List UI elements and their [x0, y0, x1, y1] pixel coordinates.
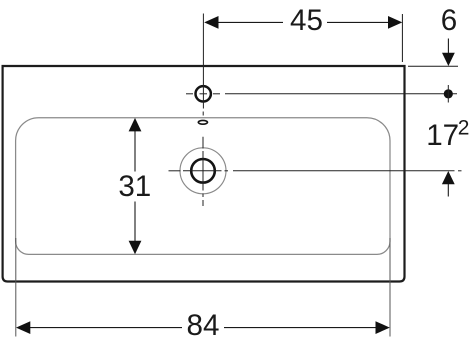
dim 31 line upper segment — [134, 131, 136, 172]
dim 31 down arrow — [129, 241, 142, 255]
reference dot — [444, 89, 453, 98]
dim 31 line lower segment — [134, 202, 136, 242]
svg-text:45: 45 — [290, 4, 323, 37]
dim 6 arrow — [442, 53, 455, 66]
dim 31 up arrow — [129, 118, 142, 131]
dim 84 left arrow — [16, 321, 30, 334]
drain centerline horizontal extended right to 17 dim — [169, 170, 181, 172]
dim 45 right extension line — [401, 14, 403, 62]
faucet hole centerline vertical (extension of 45 dim) — [202, 14, 204, 109]
washbasin outer rim rectangle — [3, 66, 405, 282]
dim 6 top edge extension line — [408, 65, 458, 67]
svg-text:2: 2 — [458, 116, 470, 139]
drain inner circle — [191, 159, 215, 183]
dim 84 line — [29, 327, 182, 329]
dim 45 right arrow — [388, 16, 402, 29]
drain outer circle — [180, 148, 226, 194]
dim 17 arrow — [442, 171, 455, 184]
reference dot vertical tick — [447, 85, 449, 103]
faucet hole centerline horizontal ticks — [186, 93, 193, 95]
svg-text:6: 6 — [441, 4, 457, 37]
drain centerline vertical — [202, 137, 204, 149]
overflow slot — [198, 120, 207, 124]
basin inner bowl outline — [16, 118, 390, 255]
dim 84 right extension line — [389, 238, 391, 337]
dim 45 left arrow — [204, 16, 218, 29]
faucet hole circle — [196, 86, 211, 101]
svg-text:31: 31 — [118, 170, 151, 203]
dim 6 arrow tail — [447, 39, 449, 54]
faucet hole center cross — [200, 93, 208, 95]
faucet hole centerline vertical below ticks — [202, 112, 204, 116]
dim 45 line — [218, 21, 283, 23]
svg-text:84: 84 — [187, 309, 220, 342]
dim 17 arrow tail — [447, 184, 449, 197]
svg-text:17: 17 — [426, 119, 459, 152]
dim 84 left extension line — [15, 238, 17, 337]
dim 84 right arrow — [376, 321, 390, 334]
faucet centerline extended right to reference dot — [225, 93, 457, 95]
